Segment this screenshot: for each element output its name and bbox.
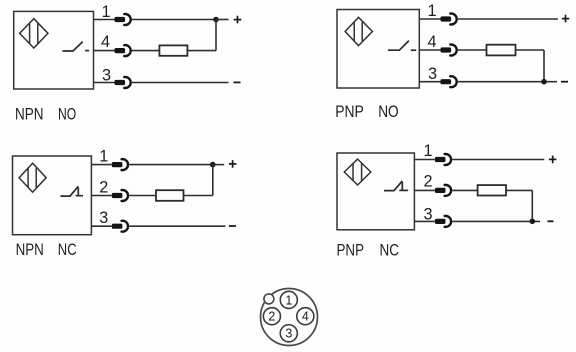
- NO contact switch: [62, 42, 82, 51]
- wire pin1 to junction: [129, 164, 213, 166]
- sensor body outline (NPN NC): [13, 156, 92, 235]
- wire resistor to corner: [506, 189, 532, 191]
- connector pin 4: [441, 45, 457, 56]
- connector pin 3: [112, 221, 128, 232]
- wire vertical down to minus line: [543, 50, 545, 82]
- svg-text:3: 3: [428, 65, 437, 83]
- plus terminal: [549, 156, 557, 164]
- wire pin4 lead: [94, 50, 115, 52]
- junction dot: [213, 17, 219, 23]
- junction dot: [530, 219, 536, 225]
- NC contact switch: [384, 181, 402, 191]
- junction dot: [210, 162, 216, 168]
- connector pin 3: [115, 77, 131, 88]
- connector pin 2: [112, 190, 128, 201]
- wire resistor to vertical: [187, 50, 216, 52]
- minus terminal: [561, 81, 568, 83]
- connector pin 3: [441, 76, 457, 87]
- wire pin3 lead: [414, 220, 435, 222]
- wire resistor to corner: [516, 49, 545, 51]
- wire junction to plus: [216, 19, 229, 21]
- wire pin1 to junction: [132, 19, 216, 21]
- pin 2 circle: [263, 308, 280, 325]
- connector pin 1: [441, 14, 457, 25]
- connector pin 4: [115, 45, 131, 56]
- wire pin1 lead: [419, 18, 440, 20]
- wire pin4 to resistor: [458, 49, 487, 51]
- resistor load: [159, 45, 187, 55]
- wire pin2 to resistor: [129, 195, 156, 197]
- keyway notch circle: [264, 294, 274, 304]
- wire pin1 lead: [91, 164, 111, 166]
- wire vertical to junction: [215, 20, 217, 51]
- svg-text:3: 3: [285, 327, 292, 341]
- wire junction to plus: [213, 164, 224, 166]
- pin 3 circle: [280, 325, 297, 342]
- svg-text:NO: NO: [58, 105, 76, 123]
- svg-text:1: 1: [285, 293, 292, 307]
- wire pin1 to plus: [452, 159, 544, 161]
- connector pin 2: [435, 185, 451, 196]
- NO contact fixed dash: [411, 49, 416, 51]
- connector pin 1: [112, 159, 128, 170]
- minus terminal: [548, 220, 554, 222]
- svg-text:NPN: NPN: [16, 241, 44, 259]
- svg-text:2: 2: [423, 173, 432, 191]
- svg-text:PNP: PNP: [337, 242, 365, 260]
- wire vertical to junction: [212, 165, 214, 196]
- connector body circle: [261, 289, 318, 346]
- svg-text:2: 2: [99, 178, 108, 196]
- proximity sensor diamond symbol: [19, 163, 46, 192]
- svg-text:PNP: PNP: [335, 103, 364, 121]
- sensor body outline (NPN NO): [14, 11, 94, 89]
- connector pin 1: [115, 14, 131, 25]
- wire pin3 to minus: [458, 81, 557, 83]
- wire vertical down to minus line: [531, 190, 533, 221]
- pin 4 circle: [297, 308, 314, 325]
- svg-text:1: 1: [427, 2, 436, 20]
- svg-text:4: 4: [101, 33, 110, 51]
- plus terminal: [562, 15, 570, 23]
- proximity sensor diamond symbol: [344, 159, 371, 185]
- svg-text:4: 4: [427, 33, 436, 51]
- sensor body outline (PNP NC): [337, 153, 414, 230]
- minus terminal: [234, 81, 241, 83]
- pin 1 circle: [280, 291, 297, 308]
- connector pin 1: [435, 154, 451, 165]
- svg-text:NC: NC: [380, 242, 400, 260]
- wire pin3 lead: [94, 82, 115, 84]
- NO contact switch: [388, 41, 409, 51]
- wire pin2 lead: [91, 195, 111, 197]
- resistor load: [487, 45, 516, 56]
- proximity sensor diamond symbol: [345, 17, 372, 45]
- wire pin1 lead: [414, 159, 435, 161]
- wire pin3 lead: [91, 225, 111, 227]
- wire pin3 to minus: [129, 225, 225, 227]
- NC contact switch: [60, 186, 78, 196]
- wire pin4 lead: [419, 49, 440, 51]
- proximity sensor diamond symbol: [20, 19, 48, 48]
- wire pin2 to resistor: [452, 189, 477, 191]
- wire resistor to vertical: [184, 195, 213, 197]
- svg-text:1: 1: [423, 142, 432, 160]
- svg-text:3: 3: [99, 209, 108, 227]
- NC contact stop bar: [399, 182, 408, 190]
- wire pin1 to plus: [458, 18, 558, 20]
- wire pin2 lead: [414, 189, 435, 191]
- minus terminal: [229, 225, 236, 227]
- wire pin4 to resistor: [132, 50, 160, 52]
- junction dot: [541, 79, 547, 85]
- resistor load: [478, 185, 506, 195]
- svg-text:NO: NO: [378, 103, 399, 121]
- wire pin3 lead: [419, 81, 440, 83]
- resistor load: [156, 190, 184, 201]
- svg-text:2: 2: [268, 310, 275, 324]
- plus terminal: [234, 16, 242, 24]
- svg-text:NC: NC: [58, 241, 77, 259]
- plus terminal: [229, 160, 237, 168]
- wire pin3 to minus: [452, 220, 540, 222]
- wire pin3 to minus: [132, 82, 229, 84]
- NO contact fixed dash: [85, 50, 89, 52]
- NC contact stop bar: [76, 188, 84, 196]
- svg-text:4: 4: [302, 310, 309, 324]
- svg-text:1: 1: [101, 3, 110, 21]
- wire pin1 lead: [94, 19, 115, 21]
- sensor body outline (PNP NO): [337, 10, 419, 89]
- svg-text:1: 1: [99, 148, 108, 166]
- svg-text:NPN: NPN: [15, 105, 44, 123]
- connector pin 3: [435, 216, 451, 227]
